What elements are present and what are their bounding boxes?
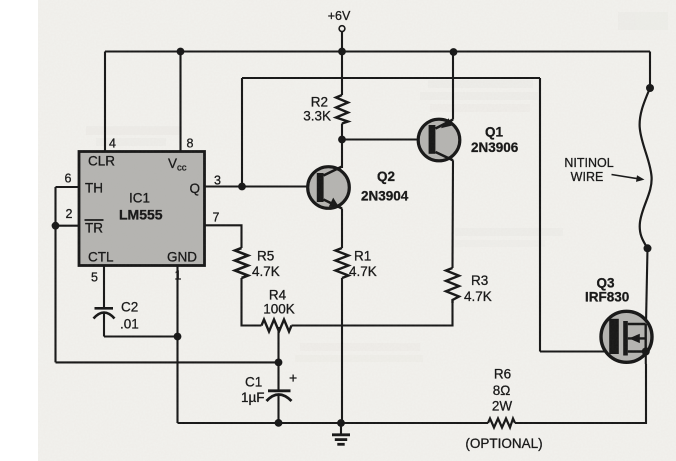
- capacitor C1: [267, 370, 298, 423]
- node: rail junction Q1 emitter: [450, 48, 458, 56]
- node: R2 / Q1 base / Q2 collector junction: [338, 136, 346, 144]
- wire: pin 2 TR to left bus: [56, 225, 80, 227]
- wire: pin 1 GND down: [176, 266, 178, 424]
- resistor R4: [262, 320, 292, 332]
- IC1 pin label GND: [167, 250, 197, 265]
- R1 value labels: [349, 249, 377, 280]
- resistor R3: [446, 268, 459, 303]
- wire: pin 3 Q output to Q2 base: [205, 185, 319, 187]
- +6V terminal: [328, 9, 351, 52]
- transistor Q2: [308, 167, 350, 209]
- node: C1 bottom junction: [275, 419, 283, 427]
- IC1 label IC1: [129, 191, 150, 206]
- R2 value labels: [303, 95, 331, 124]
- wire: Q output riser: [241, 78, 243, 187]
- wire: Q1 emitter up to rail: [452, 52, 454, 120]
- IC1 pin label Vcc: [168, 156, 187, 174]
- IC1 LM555 body: [79, 152, 205, 266]
- wire: gate lead to Q3: [540, 350, 610, 352]
- IC1 label LM555: [119, 207, 163, 223]
- wire: pin 6 TH to left bus: [56, 186, 80, 188]
- pin number 1: [175, 269, 182, 283]
- pin number 5: [91, 271, 98, 285]
- Q3 labels: [585, 276, 629, 305]
- pin number 7: [213, 211, 220, 225]
- node: ground junction: [337, 419, 345, 427]
- resistor R6: [488, 419, 515, 428]
- wire: pin 4 to rail: [104, 52, 106, 152]
- node: C2 / GND line junction: [174, 333, 182, 341]
- IC1 pin label CTL: [88, 250, 114, 265]
- wire: gate drop vertical: [539, 78, 541, 352]
- wire: bottom rail left part: [178, 422, 489, 424]
- wire: nitinol bottom to Q3 drain: [646, 248, 648, 324]
- node: rail junction pin8: [177, 48, 185, 56]
- node: C1 top junction: [275, 359, 283, 367]
- wire: C1 tap from R4: [277, 327, 279, 390]
- wire: Q1 collector down to R3: [451, 160, 454, 268]
- pin number 2: [66, 207, 73, 221]
- IC1 pin label Q: [189, 181, 200, 196]
- resistor R1: [336, 248, 349, 278]
- wire: C2 bottom to pin1 line: [104, 335, 178, 337]
- wire: R2 to junction: [341, 124, 343, 140]
- node: Q output junction: [238, 183, 246, 191]
- wire: mid rail R4 to R3: [292, 303, 453, 326]
- wire: left bus vertical TH/TR: [54, 187, 56, 362]
- Q1 labels: [471, 125, 519, 156]
- resistor R2: [336, 95, 348, 124]
- mosfet Q3: [601, 311, 652, 364]
- node: rail junction +6V: [338, 48, 346, 56]
- pin number 4: [109, 137, 116, 151]
- R4 value labels: [263, 288, 295, 317]
- wires: main +6V top rail: [105, 50, 650, 52]
- wire: bottom rail right part to Q3 source: [515, 364, 646, 423]
- wire: right drop to nitinol top: [649, 52, 651, 89]
- ground: [332, 423, 350, 444]
- IC1 pin label CLR: [88, 154, 115, 169]
- IC1 pin label TH: [85, 181, 103, 196]
- resistor R5: [235, 248, 248, 278]
- wire: Q2 emitter to R1: [341, 209, 343, 249]
- pin number 8: [187, 137, 194, 151]
- wire: Q output top run to gate drop: [242, 77, 540, 79]
- R6 value labels: [465, 367, 542, 452]
- wire: +6V to R2: [341, 52, 343, 96]
- faint ghost print bands: [86, 12, 668, 362]
- capacitor C2: [94, 266, 115, 337]
- wire: R1 to ground rail: [341, 278, 343, 423]
- wire: junction down to Q2 collector: [341, 140, 343, 169]
- wire: pin 7 to R5: [205, 225, 242, 248]
- C1 value labels: [241, 375, 265, 406]
- IC1 pin label TR with overline: [85, 220, 104, 236]
- wire: pin 8 to rail: [179, 52, 181, 152]
- node: TR junction: [52, 222, 60, 230]
- pin number 3: [214, 174, 221, 188]
- transistor Q1: [418, 118, 460, 160]
- wire: left bus to C1 top: [56, 361, 279, 363]
- wire: junction to Q1 base: [342, 138, 429, 140]
- NITINOL pointer arrow: [612, 175, 645, 182]
- nitinol wire squiggle: [640, 88, 652, 248]
- Q2 labels: [361, 169, 409, 204]
- C2 value labels: [120, 300, 139, 332]
- pin number 6: [65, 172, 72, 186]
- node: nitinol bottom terminal: [644, 244, 652, 252]
- NITINOL WIRE label: [564, 156, 613, 184]
- node: nitinol top terminal: [646, 84, 654, 92]
- R5 value labels: [252, 249, 280, 280]
- R3 value labels: [464, 273, 492, 304]
- wire: R5 to mid rail: [242, 278, 262, 326]
